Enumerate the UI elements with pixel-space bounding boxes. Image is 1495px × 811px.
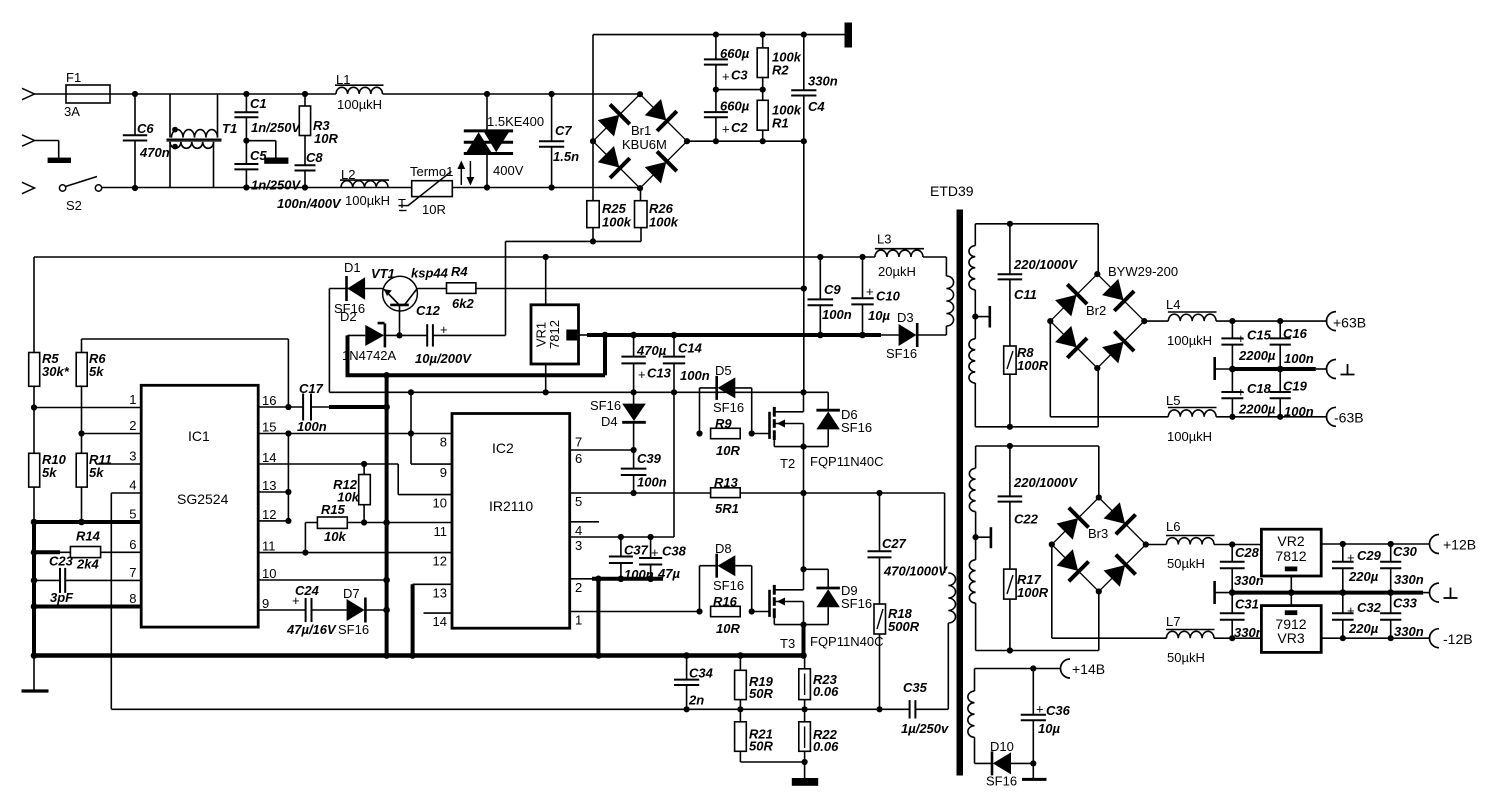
- node: C8 bottom: [302, 184, 308, 190]
- capacitor C9: [819, 257, 821, 299]
- svg-text:IR2110: IR2110: [489, 498, 533, 514]
- diode D4 SF16: [633, 392, 635, 404]
- node: C5 bottom: [243, 184, 249, 190]
- node: drop on rail393: [408, 389, 414, 395]
- node: C15/C18 common: [1229, 366, 1236, 373]
- wire: mid link to T3 drain: [803, 493, 805, 569]
- node: C6 bottom junction: [132, 185, 138, 191]
- wire: 12V thick output rail: [579, 334, 590, 336]
- node: R17 bottom: [1007, 647, 1013, 653]
- svg-text:C12: C12: [416, 303, 441, 318]
- svg-text:10µ/200V: 10µ/200V: [415, 351, 472, 366]
- node: T2 drain on rail393: [800, 389, 806, 395]
- wire: common rail 63V: [1215, 368, 1233, 370]
- wire: gate lead T2: [752, 433, 770, 435]
- svg-text:2200µ: 2200µ: [1238, 348, 1276, 363]
- svg-text:L5: L5: [1166, 393, 1180, 408]
- node: R19 top: [737, 652, 744, 659]
- bridge rectifier Br2 BYW29-200: [1050, 274, 1144, 368]
- node: pin8 on left bus: [31, 603, 38, 610]
- svg-text:3: 3: [129, 449, 136, 464]
- node: C37 bottom: [618, 576, 625, 583]
- node: C30/C33 common: [1387, 589, 1394, 596]
- svg-text:C9: C9: [824, 282, 841, 297]
- svg-text:+63B: +63B: [1333, 315, 1366, 331]
- node: R1 bottom: [760, 138, 766, 144]
- svg-text:9: 9: [440, 465, 447, 480]
- node: pin16 junction: [285, 404, 291, 410]
- node: C19 bottom: [1277, 414, 1283, 420]
- wire: W3 bottom to D10: [975, 762, 992, 764]
- node: C36 top: [1030, 665, 1036, 671]
- wire: half-bridge mid link: [803, 447, 805, 493]
- diode D9 SF16 body: [804, 568, 829, 570]
- svg-text:14: 14: [262, 450, 276, 465]
- svg-text:+: +: [866, 284, 874, 299]
- svg-text:15: 15: [262, 420, 276, 435]
- svg-text:50µkH: 50µkH: [1167, 556, 1205, 571]
- svg-text:100R: 100R: [1017, 358, 1049, 373]
- svg-text:0.06: 0.06: [813, 684, 839, 699]
- svg-text:C35: C35: [903, 680, 928, 695]
- node: C28/C31 common: [1229, 589, 1236, 596]
- pin 12 stub: [258, 520, 288, 522]
- svg-text:C15: C15: [1247, 328, 1272, 343]
- node: R11 bottom on pin5 bus: [78, 519, 85, 526]
- node: pin15 junction: [285, 430, 291, 436]
- svg-text:2n: 2n: [688, 693, 704, 708]
- svg-text:C34: C34: [689, 666, 714, 681]
- node: C9 bottom: [817, 332, 824, 339]
- svg-text:660µ: 660µ: [720, 46, 750, 61]
- svg-text:10R: 10R: [716, 621, 740, 636]
- output +14B: [1061, 659, 1071, 678]
- node: R15 leg junction: [302, 550, 308, 556]
- svg-text:C16: C16: [1283, 326, 1308, 341]
- wire: D2 to VT1 base and C12: [384, 334, 427, 336]
- svg-text:C33: C33: [1393, 596, 1418, 611]
- capacitor C18 2200u: [1231, 369, 1233, 392]
- node: pin10 on thick vertical: [383, 577, 390, 584]
- pin 6 stub to C39: [570, 449, 634, 451]
- diode D3 SF16: [899, 323, 918, 347]
- node: pin7 on left bus: [31, 577, 38, 584]
- chassis bar top right: [845, 23, 853, 48]
- svg-text:13: 13: [262, 478, 276, 493]
- svg-text:100n/400V: 100n/400V: [277, 196, 342, 211]
- wire: VR1 ground lead: [545, 364, 547, 392]
- svg-text:R15: R15: [321, 502, 346, 517]
- node: C7 bottom: [549, 184, 555, 190]
- svg-text:+: +: [1237, 331, 1245, 346]
- svg-text:ETD39: ETD39: [930, 183, 974, 199]
- diode D10 SF16: [992, 751, 1011, 775]
- node: R15 wire on thick vertical: [383, 519, 390, 526]
- node: VR1 ground on rail393: [543, 389, 549, 395]
- capacitor C32 220u: [1342, 593, 1344, 614]
- svg-text:7812: 7812: [1275, 548, 1306, 564]
- node: C13 top on 12V rail: [630, 332, 637, 339]
- node: TVS bottom: [484, 184, 490, 190]
- svg-text:SF16: SF16: [841, 596, 872, 611]
- wire: common rail 12V: [1215, 592, 1233, 594]
- capacitor C24: [305, 598, 307, 622]
- svg-text:+: +: [1347, 550, 1355, 565]
- resistor R13: [711, 488, 741, 498]
- node: pin2 drop: [595, 576, 602, 583]
- node: C29/C32 common: [1340, 589, 1347, 596]
- node: R2 top: [760, 31, 766, 37]
- wire: C14 column down to pin3 wire: [673, 392, 675, 537]
- node: C11 top: [1007, 221, 1013, 227]
- pin 11 wire to IC2 pin 12: [258, 552, 452, 554]
- resistor R5: [29, 353, 40, 387]
- wire: W2 top to Br3: [976, 445, 1099, 447]
- output common 12V: [1430, 583, 1440, 602]
- voltage regulator VR1 7812: [545, 257, 547, 305]
- node: R2/R1 mid: [760, 87, 766, 93]
- capacitor C37: [620, 537, 622, 557]
- svg-text:R9: R9: [715, 416, 732, 431]
- wire: R25/R26 bus to C12: [506, 240, 642, 242]
- capacitor C16: [1279, 321, 1281, 338]
- svg-text:IC2: IC2: [492, 440, 514, 456]
- svg-text:10: 10: [262, 566, 276, 581]
- resistor R18: [874, 604, 886, 634]
- svg-text:4: 4: [575, 523, 582, 538]
- svg-text:C18: C18: [1247, 381, 1272, 396]
- svg-text:T1: T1: [222, 121, 237, 136]
- svg-text:30k*: 30k*: [42, 364, 70, 379]
- capacitor C29 220u: [1342, 544, 1344, 562]
- svg-text:1: 1: [575, 613, 582, 628]
- node: C29 top: [1340, 541, 1346, 547]
- node: C38 top: [648, 534, 654, 540]
- capacitor C36: [1032, 669, 1034, 715]
- resistor R14: [70, 547, 100, 558]
- node: C18 bottom: [1229, 414, 1235, 420]
- svg-text:470n: 470n: [139, 145, 170, 160]
- capacitor C14 100n: [673, 335, 675, 357]
- wire: pin2 thick drop to ground bus: [596, 579, 600, 656]
- svg-text:0.06: 0.06: [813, 739, 839, 754]
- svg-text:D7: D7: [343, 586, 360, 601]
- wire: pin15-13-12 tie: [287, 434, 289, 521]
- svg-text:10R: 10R: [422, 202, 446, 217]
- svg-text:6k2: 6k2: [452, 296, 474, 311]
- svg-text:R2: R2: [772, 63, 789, 78]
- ground: C36 ground: [1032, 763, 1034, 779]
- node: pin13 link on bus: [409, 652, 416, 659]
- node: R8 bottom: [1007, 424, 1013, 430]
- node: mid on R13 rail: [800, 490, 806, 496]
- svg-text:KBU6M: KBU6M: [622, 137, 667, 152]
- svg-text:Br2: Br2: [1086, 303, 1106, 318]
- svg-text:C28: C28: [1235, 545, 1260, 560]
- resistor R19: [739, 656, 741, 671]
- svg-text:100R: 100R: [1017, 585, 1049, 600]
- capacitor C8: [295, 164, 316, 166]
- node: R16 right: [749, 608, 755, 614]
- node: R12/R15 junction: [361, 519, 367, 525]
- svg-text:+: +: [722, 122, 730, 137]
- svg-text:-63B: -63B: [1334, 410, 1364, 426]
- svg-text:SF16: SF16: [713, 400, 744, 415]
- transistor VT1 ksp44: [383, 276, 418, 311]
- svg-text:100k: 100k: [649, 215, 679, 230]
- wire: W3 top to +14B: [975, 668, 1062, 670]
- resistor R9: [711, 428, 741, 438]
- node: C3 top: [713, 31, 719, 37]
- node: C34 bottom: [684, 706, 690, 712]
- svg-text:R14: R14: [76, 529, 101, 544]
- svg-text:500R: 500R: [888, 619, 920, 634]
- svg-text:C6: C6: [137, 121, 154, 136]
- wire: VR2 ground to common rail: [1290, 576, 1292, 593]
- node: D4/C39 junction: [631, 447, 637, 453]
- svg-text:3pF: 3pF: [50, 590, 74, 605]
- node: VT1 base junction: [396, 332, 402, 338]
- pin 6 wire with R14: [34, 550, 60, 554]
- capacitor C11: [1009, 224, 1011, 274]
- secondary winding W3: [974, 669, 976, 692]
- node: TVS top: [484, 91, 490, 97]
- svg-text:100n: 100n: [822, 307, 852, 322]
- node: drop on pin8 wire: [408, 430, 414, 436]
- node: C16 top: [1277, 318, 1283, 324]
- svg-text:C11: C11: [1014, 287, 1037, 302]
- svg-text:1n/250V: 1n/250V: [251, 120, 301, 135]
- svg-text:16: 16: [262, 393, 276, 408]
- node: C36 bottom: [1030, 760, 1036, 766]
- svg-text:11: 11: [262, 539, 276, 554]
- capacitor C23: [59, 568, 61, 593]
- svg-text:SF16: SF16: [841, 420, 872, 435]
- node: T2 source node: [800, 444, 806, 450]
- W1 tap bar: [988, 306, 991, 328]
- svg-text:7812: 7812: [547, 320, 562, 349]
- pin 9 wire with C24 and D7: [258, 609, 305, 611]
- node: C27 top: [876, 490, 882, 496]
- svg-text:ksp44: ksp44: [411, 266, 449, 281]
- svg-text:T2: T2: [780, 456, 795, 471]
- svg-text:8: 8: [129, 591, 136, 606]
- node: rail257 to R5 column corner: [33, 257, 35, 353]
- resistor R8: [1004, 346, 1016, 374]
- capacitor C31: [1231, 593, 1233, 614]
- node: C30 top: [1388, 541, 1394, 547]
- resistor R22 shunt: [799, 722, 811, 752]
- node: VR2/VR3 common: [1288, 589, 1295, 596]
- svg-text:10R: 10R: [716, 443, 740, 458]
- output +63B: [1327, 312, 1337, 331]
- svg-text:R4: R4: [451, 264, 468, 279]
- wire: W2 bottom to Br3 AC: [976, 650, 1099, 652]
- svg-text:+: +: [1036, 702, 1044, 717]
- svg-text:SF16: SF16: [338, 622, 369, 637]
- svg-text:100k: 100k: [602, 215, 632, 230]
- wire: D1 cathode drop to HV mid rail: [328, 289, 330, 393]
- pin 1 wire: [34, 407, 141, 409]
- svg-text:R1: R1: [772, 116, 789, 131]
- diode D6 SF16 body: [804, 391, 829, 393]
- wire: W1 top to Br2: [975, 223, 1098, 225]
- capacitor C1: [245, 94, 247, 112]
- svg-text:5: 5: [129, 507, 136, 522]
- svg-text:FQP11N40C: FQP11N40C: [810, 454, 883, 469]
- ground: main left ground: [33, 656, 35, 692]
- bridge rectifier Br1 KBU6M: [593, 94, 687, 188]
- wire: D1/VT1/R4 rail y=288.5: [329, 288, 803, 290]
- wire: Br1 left corner vertical to top DC bus and down to R25: [592, 35, 594, 142]
- node: R9 left: [696, 430, 702, 436]
- svg-text:C4: C4: [808, 99, 825, 114]
- svg-text:14: 14: [433, 614, 447, 629]
- node: C33 bottom: [1388, 635, 1394, 641]
- svg-text:SF16: SF16: [713, 578, 744, 593]
- capacitor C12: [426, 324, 428, 346]
- svg-text:50µkH: 50µkH: [1167, 650, 1205, 665]
- svg-text:100µkH: 100µkH: [345, 193, 390, 208]
- svg-text:20µkH: 20µkH: [878, 264, 916, 279]
- svg-text:C36: C36: [1046, 703, 1071, 718]
- common tick bar W1 filter: [1213, 357, 1216, 380]
- svg-text:10: 10: [433, 496, 447, 511]
- svg-text:1N4742A: 1N4742A: [342, 348, 397, 363]
- node: R12 top junction: [361, 461, 367, 467]
- svg-text:1.5n: 1.5n: [553, 149, 579, 164]
- pin 14 stub: [424, 612, 453, 614]
- svg-text:100n: 100n: [1284, 351, 1314, 366]
- pin 8 thick wire: [34, 605, 141, 609]
- svg-text:D8: D8: [715, 541, 732, 556]
- svg-text:C29: C29: [1357, 548, 1382, 563]
- pin 5 wire / R13 rail: [570, 492, 711, 494]
- capacitor C33: [1390, 593, 1392, 614]
- wire: W1 tap stub: [975, 316, 990, 318]
- svg-text:50R: 50R: [749, 686, 773, 701]
- output +12B: [1430, 535, 1440, 554]
- pin 16 wire with C17: [258, 406, 303, 408]
- svg-text:F1: F1: [66, 70, 81, 85]
- svg-text:D2: D2: [340, 309, 357, 324]
- TVS 1.5KE400: [486, 94, 488, 131]
- svg-text:C17: C17: [299, 381, 324, 396]
- node: C17 thick end: [383, 404, 390, 411]
- resistor R15: [317, 517, 347, 528]
- resistor R15 wire: [305, 522, 452, 524]
- node: R10 bottom on pin5 bus: [31, 519, 38, 526]
- ground: input earth bar: [48, 158, 71, 163]
- regulator VR2 7812: [1261, 529, 1321, 576]
- svg-text:330n: 330n: [808, 74, 838, 89]
- svg-text:10µ: 10µ: [868, 308, 890, 323]
- svg-text:FQP11N40C: FQP11N40C: [810, 634, 883, 649]
- svg-text:330n: 330n: [1394, 572, 1424, 587]
- svg-text:VR3: VR3: [1277, 630, 1304, 646]
- svg-text:220/1000V: 220/1000V: [1013, 475, 1078, 490]
- svg-text:400V: 400V: [493, 163, 524, 178]
- node: W1 center tap: [972, 314, 978, 320]
- wire: AC line input top rail: [35, 93, 337, 95]
- capacitor C22: [1009, 446, 1011, 496]
- svg-text:C27: C27: [882, 536, 907, 551]
- diode D7 SF16: [347, 598, 366, 623]
- svg-text:6: 6: [575, 451, 582, 466]
- node: C32 bottom: [1340, 635, 1346, 641]
- svg-text:C5: C5: [250, 148, 267, 163]
- svg-text:IC1: IC1: [188, 428, 210, 444]
- node: thick vert x=386.6 on bus: [383, 652, 390, 659]
- svg-text:C13: C13: [647, 366, 672, 381]
- wire: left bus thick section down to ground: [32, 522, 36, 656]
- pin 14 wire to IC2 pin 10: [258, 463, 398, 465]
- svg-text:C14: C14: [678, 341, 703, 356]
- ground: sense ground bar: [792, 778, 818, 786]
- node: R4 wire end junction: [801, 285, 807, 291]
- node: C14 top: [671, 332, 678, 339]
- svg-text:D10: D10: [990, 739, 1014, 754]
- capacitor C28: [1231, 545, 1233, 562]
- capacitor C30: [1390, 544, 1392, 562]
- wire: Br2 plus to L4: [1144, 320, 1168, 322]
- capacitor C38: [650, 537, 652, 558]
- svg-text:T: T: [398, 196, 406, 211]
- svg-text:+12B: +12B: [1443, 537, 1476, 553]
- svg-text:220/1000V: 220/1000V: [1013, 257, 1078, 272]
- svg-text:-12B: -12B: [1443, 631, 1473, 647]
- svg-text:VR2: VR2: [1277, 533, 1304, 549]
- node: pin2 drop on bus: [595, 652, 602, 659]
- node: VR1 input on rail 257: [543, 254, 549, 260]
- svg-text:100µkH: 100µkH: [337, 97, 382, 112]
- primary winding upper: [946, 276, 953, 326]
- node: W2 center tap: [973, 534, 979, 540]
- IC IC2 IR2110: [452, 414, 570, 629]
- node: T3 drain: [800, 566, 806, 572]
- svg-text:2: 2: [575, 580, 582, 595]
- transistor T2 FQP11N40C: [768, 412, 771, 439]
- regulator VR3 7912: [1261, 606, 1321, 653]
- pin 4 wire to bottom rail: [111, 492, 141, 494]
- svg-text:+: +: [638, 367, 646, 382]
- node: D7 on thick vertical: [383, 607, 390, 614]
- wire: AC neutral bottom rail: [100, 187, 412, 189]
- svg-text:C30: C30: [1393, 544, 1418, 559]
- wire: main thick ground bus: [34, 653, 804, 658]
- wire: mid junction to earth: [246, 140, 275, 142]
- wire: Br3 plus to L6: [1146, 544, 1167, 546]
- svg-text:C31: C31: [1235, 597, 1259, 612]
- svg-text:47µ/16V: 47µ/16V: [286, 622, 337, 637]
- svg-text:C19: C19: [1283, 379, 1308, 394]
- svg-text:5R1: 5R1: [715, 501, 739, 516]
- wire: low side sense rail y=709.3: [111, 708, 909, 710]
- node: C9 top: [817, 254, 823, 260]
- capacitor C34: [686, 656, 688, 680]
- pin 13 thick ground link: [413, 583, 452, 585]
- node: thick vert x=386.6 on return bus: [383, 372, 390, 379]
- node: C7 top: [549, 91, 555, 97]
- node: pin6 on left bus: [31, 549, 38, 556]
- svg-text:330n: 330n: [1234, 625, 1264, 640]
- wire: thick return from D2 anode to VR1 output column: [346, 335, 350, 375]
- wire: W2 tap stub: [976, 536, 991, 538]
- wire: VR3 ground from common rail: [1290, 593, 1292, 606]
- node: C13 bottom on rail393: [631, 389, 637, 395]
- node: R16 left: [696, 608, 702, 614]
- input terminal arrow 2 (earth): [22, 135, 35, 146]
